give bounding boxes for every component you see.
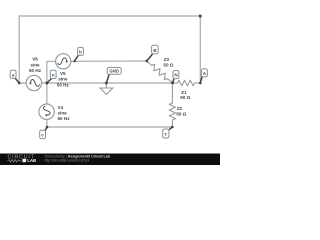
wire neutral <box>42 82 173 84</box>
footer bar <box>0 154 220 166</box>
svg-text:sine: sine <box>58 111 68 116</box>
anchor dot B wire end <box>146 60 149 63</box>
node flag A <box>200 69 207 83</box>
node flag N <box>173 71 179 83</box>
svg-text:V5: V5 <box>60 71 66 76</box>
node flag a <box>10 70 19 83</box>
svg-text:n: n <box>52 73 55 78</box>
resistor Z2 <box>169 86 175 128</box>
anchor dot c left corner <box>46 126 49 129</box>
svg-text:50 Hz: 50 Hz <box>29 68 42 73</box>
svg-text:50 Ω: 50 Ω <box>176 111 186 116</box>
wire right vertical <box>199 16 201 83</box>
junction dot top-right corner <box>199 15 202 18</box>
anchor dot c right corner <box>171 126 174 129</box>
svg-text:Z2: Z2 <box>177 106 183 111</box>
voltage source V5 <box>56 54 71 69</box>
junction dot neutral/common <box>45 82 48 85</box>
wire V4 bottom <box>46 119 48 127</box>
svg-text:50 Hz: 50 Hz <box>57 82 70 87</box>
svg-text:http://circuitlab.com/c/cnrj7p: http://circuitlab.com/c/cnrj7pbf <box>45 159 90 163</box>
wire left vertical <box>18 16 20 83</box>
ground <box>100 83 113 94</box>
resistor Z1 <box>173 80 201 86</box>
svg-text:sine: sine <box>58 77 68 82</box>
wire top <box>19 15 200 17</box>
voltage source V4 <box>39 104 54 119</box>
svg-text:B: B <box>153 48 156 53</box>
node flag GND label <box>107 67 122 82</box>
node flag c (left) <box>40 127 47 138</box>
wire V5 right to Z3 <box>71 60 147 62</box>
voltage source V6 <box>26 75 41 90</box>
svg-text:50 Ω: 50 Ω <box>180 95 190 100</box>
svg-text:50 Hz: 50 Hz <box>58 116 71 121</box>
svg-text:LAB: LAB <box>27 158 36 163</box>
resistor Z3 <box>147 61 173 83</box>
svg-text:b: b <box>79 50 82 55</box>
svg-text:50 Ω: 50 Ω <box>163 63 173 68</box>
svg-text:V6: V6 <box>32 57 38 62</box>
anchor dot a corner <box>18 82 21 85</box>
anchor dot b wire <box>73 60 75 62</box>
node flag B <box>147 45 158 60</box>
wire V6 left stub <box>19 82 26 84</box>
node flag c (right) <box>163 127 173 138</box>
node flag n <box>47 70 56 82</box>
footer logo zigzag + LAB <box>8 158 37 163</box>
node flag b <box>75 47 84 60</box>
svg-text:N: N <box>174 73 177 78</box>
svg-text:Z3: Z3 <box>164 57 170 62</box>
junction dot gnd tap <box>105 82 108 85</box>
wire V5 left + common vertical <box>47 61 56 104</box>
svg-text:Z1: Z1 <box>181 90 187 95</box>
svg-text:V4: V4 <box>58 105 64 110</box>
wire bottom <box>47 126 172 128</box>
junction dot N <box>171 82 174 85</box>
svg-text:TomaszKelly | Assignment3 Circ: TomaszKelly | Assignment3 Circuit Lab <box>45 154 111 158</box>
svg-text:GND: GND <box>110 69 119 74</box>
svg-text:sine: sine <box>30 62 40 67</box>
anchor dot A corner <box>199 82 202 85</box>
